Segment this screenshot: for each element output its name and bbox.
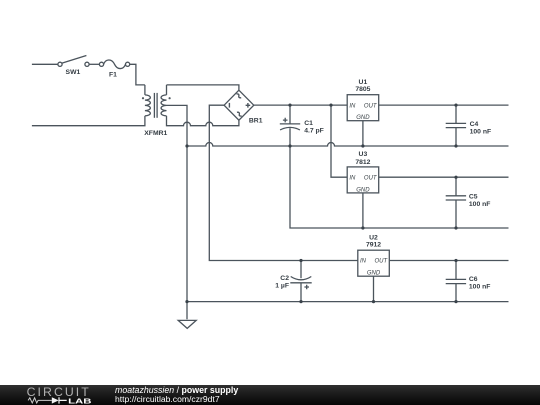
junction node C4 bottom [454,144,457,147]
svg-text:100 nF: 100 nF [469,201,491,208]
svg-text:C5: C5 [469,194,478,201]
svg-text:C4: C4 [470,121,479,128]
svg-text:IN: IN [349,175,356,181]
junction node C6 bottom [454,300,457,303]
transformer XFMR1 secondary winding [161,85,166,116]
regulator U2 box [358,250,390,301]
svg-text:OUT: OUT [375,259,389,265]
junction node C4 top [454,104,457,107]
svg-text:LAB: LAB [68,396,92,405]
wire SW1 to F1 [89,63,99,65]
capacitor C1 [280,105,300,146]
wire left input bottom [32,116,145,126]
wire secondary top to bridge [167,85,239,90]
wire F1 to transformer primary top [130,64,145,85]
switch SW1 [58,56,89,67]
svg-text:XFMR1: XFMR1 [144,130,167,137]
junction node C5 top [454,176,457,179]
junction node C6 top [454,259,457,262]
svg-text:100 nF: 100 nF [469,284,491,291]
CircuitLab logo diode [52,397,59,403]
svg-text:C2: C2 [280,275,289,282]
svg-text:U3: U3 [359,151,368,158]
wire bridge plus to U1 input [254,104,347,106]
junction node U2 gnd [372,300,375,303]
wire ground rail with hops [187,143,509,147]
capacitor C6 [446,261,466,302]
svg-text:IN: IN [349,103,356,109]
svg-text:4.7 pF: 4.7 pF [304,127,324,134]
svg-text:OUT: OUT [364,175,378,181]
wire second ground rail [290,146,509,228]
wire raw DC feed to U3 input [331,105,347,177]
CircuitLab logo resistor squiggle [28,397,52,402]
wire bottom rail [187,301,509,303]
junction node C2 top [299,259,302,262]
ground [178,320,196,328]
junction node C1 bottom [288,144,291,147]
fuse F1 [99,60,129,69]
regulator U3 box [347,167,379,228]
svg-text:7812: 7812 [355,159,370,166]
wire secondary bottom to bridge with hops [167,116,239,126]
wire secondary center tap down to ground [167,105,188,319]
transformer core [154,93,157,118]
junction node U1 gnd [361,144,364,147]
regulator U1 box [347,95,379,146]
svg-text:F1: F1 [109,71,117,78]
junction node center tap gnd rail [185,144,188,147]
capacitor C4 [446,105,466,146]
svg-text:GND: GND [367,271,381,277]
svg-text:C1: C1 [304,120,313,127]
svg-text:U2: U2 [369,234,378,241]
svg-text:BR1: BR1 [249,118,263,125]
junction node C5 bottom [454,226,457,229]
svg-text:1 µF: 1 µF [275,283,289,290]
transformer phase dot primary [142,97,144,99]
svg-text:GND: GND [356,187,370,193]
svg-text:7805: 7805 [355,86,370,93]
wire U1 output rail [379,104,509,106]
junction node U3 feed [329,104,332,107]
svg-text:U1: U1 [359,79,368,86]
capacitor C5 [446,177,466,228]
wire U3 output rail [379,176,509,178]
footer title line [115,385,238,395]
svg-text:OUT: OUT [364,103,378,109]
svg-text:GND: GND [356,115,370,121]
svg-text:100 nF: 100 nF [470,128,492,135]
wire U2 output rail [389,260,508,262]
svg-text:C6: C6 [469,276,478,283]
svg-text:SW1: SW1 [66,69,81,76]
capacitor C2 [290,261,311,302]
wire bridge minus to U2 input [209,105,357,260]
junction node bottom rail left [185,300,188,303]
bridge rectifier BR1 [224,90,254,120]
svg-text:IN: IN [360,259,367,265]
junction node C1 top [288,104,291,107]
transformer XFMR1 primary winding [145,85,150,116]
wire left input top [32,63,58,65]
junction node C2 bottom [299,300,302,303]
svg-text:7912: 7912 [366,242,381,249]
footer bar [0,385,540,405]
footer url line [115,394,220,404]
junction node U3 gnd [361,226,364,229]
transformer phase dot secondary [169,97,171,99]
